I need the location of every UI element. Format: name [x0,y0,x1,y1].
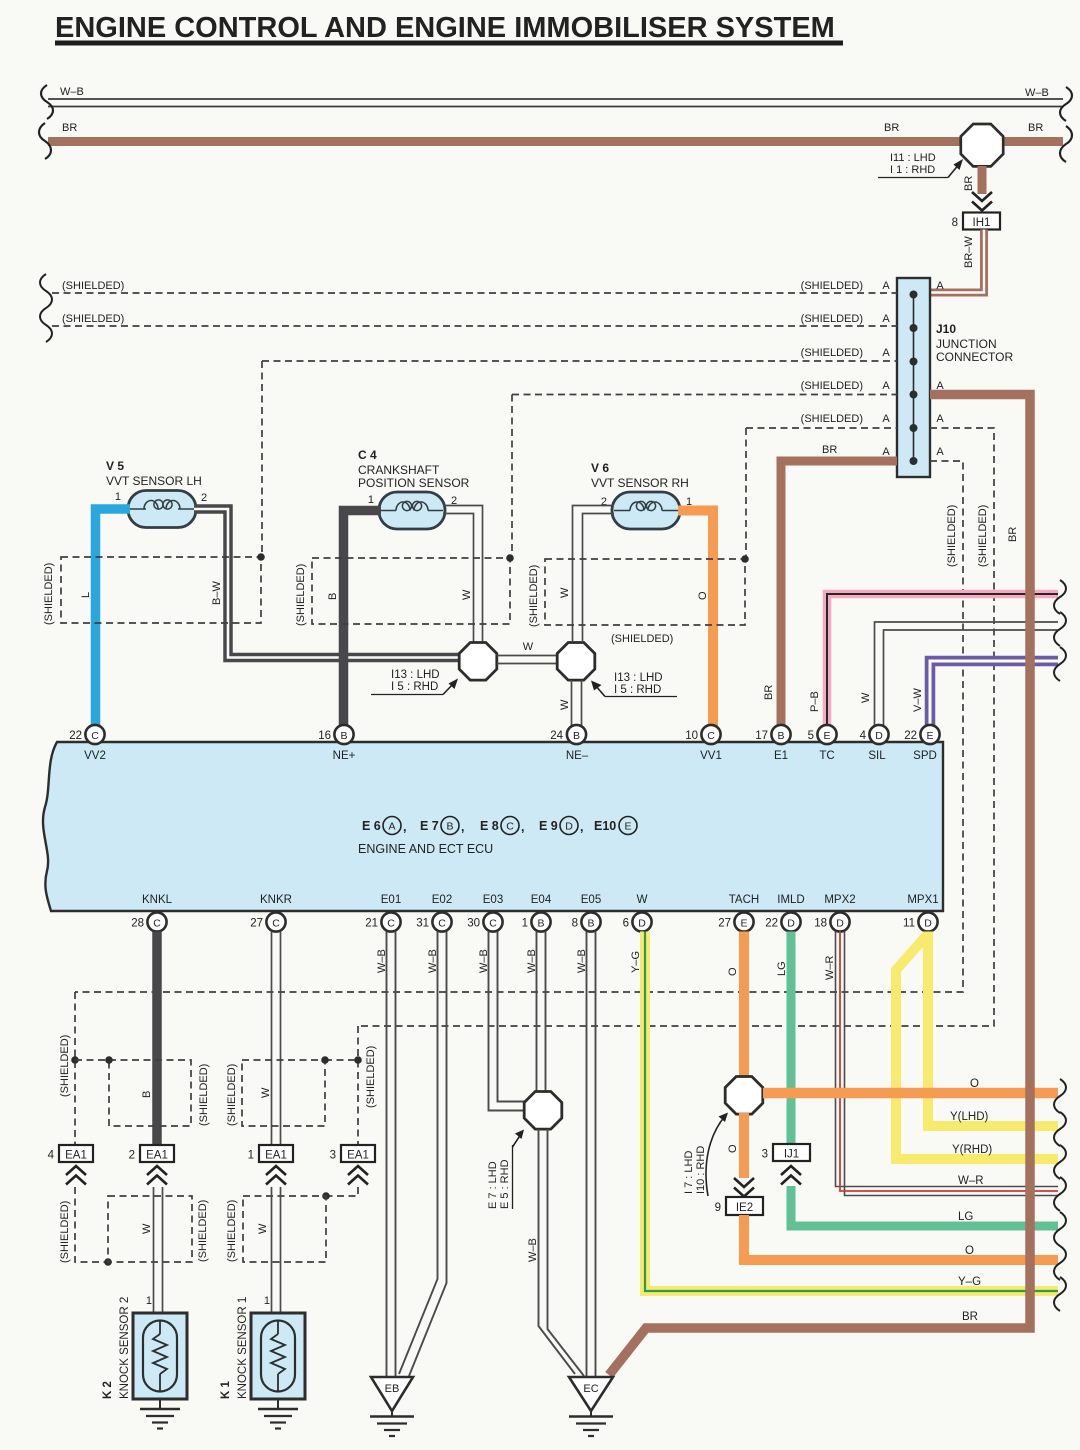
svg-text:C: C [91,730,99,742]
svg-text:IH1: IH1 [973,217,991,229]
junction connector J10 [897,278,1013,477]
wire O TACH to node I7 [727,932,744,1078]
svg-text:VV2: VV2 [84,750,106,762]
svg-text:W–R: W–R [824,956,836,981]
shield drain EA1-3 to K1 box [322,1187,358,1200]
svg-text:K 2: K 2 [102,1381,114,1399]
svg-text:D: D [836,918,844,930]
wire W-R MPX2 to right edge [824,932,1058,1196]
svg-text:A: A [388,821,395,833]
svg-text:W–B: W–B [526,949,538,973]
svg-text:E02: E02 [432,894,452,906]
svg-text:NE–: NE– [566,750,589,762]
svg-text:1: 1 [368,494,374,506]
continuation brace W-R [1054,1177,1066,1211]
shield drain dashed vertical to EA1-3 [325,1026,377,1145]
title ENGINE CONTROL AND ENGINE IMMOBILISER SYSTEM [55,12,843,46]
svg-text:IE2: IE2 [736,1202,753,1214]
svg-text:B: B [340,730,347,742]
svg-text:C: C [506,821,514,833]
svg-text:E: E [740,918,747,930]
wire W EA1-2 to K2 [146,1187,163,1315]
svg-text:(SHIELDED): (SHIELDED) [59,1035,71,1097]
svg-text:B: B [446,821,453,833]
shield box K1 W wire [226,1196,326,1262]
svg-text:16: 16 [318,730,331,742]
chevron arrow up to EA1-2 [147,1166,167,1185]
svg-text:CRANKSHAFT: CRANKSHAFT [358,463,440,477]
pin 1 B E04 [522,912,551,931]
pin 5 E TC [808,725,837,744]
chevron arrow down to IE2 [734,1178,754,1197]
wire W-B E03 to node E7 [478,932,526,1111]
svg-text:W: W [260,1087,272,1098]
pin 22 D IMLD [765,912,800,931]
svg-text:,: , [461,820,464,834]
svg-text:8: 8 [952,217,958,229]
svg-text:(SHIELDED): (SHIELDED) [197,1200,209,1262]
svg-text:E 7: E 7 [420,819,439,833]
wire W-B node E7 to EC [527,1129,584,1376]
wire W-B E04 to node E7 [526,932,546,1093]
node I13 octagon left [371,643,497,695]
svg-text:A: A [882,413,890,425]
svg-text:O: O [965,1245,974,1257]
shield box C4 [295,554,514,626]
shield drain dashed left vertical to EA1-4 [59,992,109,1145]
pin 18 D MPX2 [814,912,849,931]
svg-text:B–W: B–W [211,581,223,605]
svg-text:I 5 : RHD: I 5 : RHD [614,684,661,696]
svg-text:(SHIELDED): (SHIELDED) [295,564,307,626]
chevron arrow up to EA1-4 [66,1166,86,1185]
connector EA1 pin 3 [330,1145,375,1162]
svg-text:KNKR: KNKR [260,894,292,906]
svg-text:W–B: W–B [376,949,388,973]
pin 17 B E1 [755,725,790,744]
sensor C4 CRANKSHAFT POSITION SENSOR [358,448,470,529]
svg-text:9: 9 [715,1202,721,1214]
svg-text:L: L [80,592,92,598]
wire W C4 to node I13 [443,506,483,644]
wire V-W SPD to right edge [912,661,1058,726]
svg-text:EC: EC [583,1383,598,1395]
svg-text:Y(RHD): Y(RHD) [952,1144,992,1156]
svg-text:(SHIELDED): (SHIELDED) [62,280,124,292]
svg-text:IMLD: IMLD [777,894,804,906]
pin 6 D W [623,912,652,931]
svg-text:W: W [461,589,473,600]
continuation brace W SIL [1054,612,1066,646]
continuation brace row2 [40,308,52,342]
svg-text:ENGINE AND ECT ECU: ENGINE AND ECT ECU [358,842,493,856]
svg-text:W–B: W–B [527,1238,539,1262]
svg-text:E03: E03 [483,894,503,906]
svg-text:I10 : RHD: I10 : RHD [695,1146,707,1194]
continuation brace right BR [1060,126,1072,162]
svg-text:(SHIELDED): (SHIELDED) [801,313,863,325]
sensor V6 VVT SENSOR RH [591,461,692,529]
svg-text:27: 27 [718,918,731,930]
svg-text:KNKL: KNKL [142,894,173,906]
svg-text:J10: J10 [936,322,956,336]
svg-text:Y–G: Y–G [958,1276,981,1288]
wire W-B E05 to EC [576,932,596,1377]
pin 30 C E03 [467,912,502,931]
pin 22 C VV2 [69,725,104,744]
node E7:LHD / E5:RHD octagon [487,1092,562,1210]
svg-text:O: O [697,591,709,600]
shield drain EA1-4 to K2 box [59,1187,112,1266]
continuation brace Y-G [1054,1277,1066,1311]
svg-text:A: A [882,280,890,292]
svg-text:EA1: EA1 [146,1150,168,1162]
svg-text:NE+: NE+ [333,750,356,762]
shielded net row3 to V5 shield box [262,347,897,557]
wire W-B E01 to EB [376,932,396,1377]
svg-text:JUNCTION: JUNCTION [936,337,997,351]
svg-text:18: 18 [814,918,827,930]
svg-text:D: D [875,730,883,742]
svg-text:W–R: W–R [958,1175,984,1187]
svg-text:V 5: V 5 [106,459,124,473]
wire LG IMLD to IJ1 [776,932,791,1145]
svg-text:E 7 : LHD: E 7 : LHD [487,1161,499,1209]
shielded drain J10 row6 down right side [75,461,963,992]
wire L V5 to VV2 [80,509,130,726]
ECU ENGINE AND ECT ECU box [43,742,943,911]
wire P-B TC to right edge [809,594,1058,728]
svg-text:1: 1 [115,491,121,503]
svg-text:W: W [559,587,571,598]
wire B C4 to NE+ [327,511,381,727]
knock sensor K2 [102,1297,187,1399]
svg-text:SPD: SPD [913,750,937,762]
svg-text:11: 11 [903,918,915,930]
continuation brace LG [1054,1212,1066,1246]
pin 28 C KNKL [131,912,166,931]
svg-text:ENGINE CONTROL AND ENGINE IMMO: ENGINE CONTROL AND ENGINE IMMOBILISER SY… [55,12,835,44]
svg-text:1: 1 [248,1150,254,1162]
svg-text:W: W [257,1223,269,1234]
wire O node I7 to right edge [763,1078,1058,1093]
shielded net row2 to J10 pin A [52,313,897,326]
svg-text:24: 24 [550,730,563,742]
svg-text:22: 22 [765,918,778,930]
svg-text:VVT SENSOR RH: VVT SENSOR RH [591,476,689,490]
svg-text:D: D [787,918,795,930]
svg-text:O: O [727,1144,739,1153]
svg-text:A: A [936,413,944,425]
svg-text:W: W [523,641,534,653]
svg-text:E01: E01 [381,894,401,906]
svg-text:D: D [565,821,573,833]
connector IH1 pin 8 [952,213,1000,230]
connector EA1 pin 2 [129,1145,174,1162]
chevron arrow up to IJ1 [781,1166,801,1185]
svg-text:8: 8 [572,918,578,930]
svg-text:O: O [970,1078,979,1090]
continuation brace O lower [1054,1246,1066,1280]
svg-text:1: 1 [522,918,528,930]
wire Y(RHD) MPX1 to right edge [896,936,1058,1159]
svg-text:3: 3 [330,1150,336,1162]
wire W KNKR to EA1-1 [272,932,281,1146]
svg-text:4: 4 [48,1150,55,1162]
chevron arrow up to EA1-3 [348,1166,368,1185]
wire Y(LHD) MPX1 to right edge [928,932,1058,1127]
shield box KNKR W wire [226,1056,329,1126]
svg-text:3: 3 [762,1149,768,1161]
svg-text:(SHIELDED): (SHIELDED) [226,1200,238,1262]
wire BR octagon to IH1 [963,166,982,194]
wire O V6 to VV1 [678,511,713,727]
svg-text:BR: BR [962,1311,978,1323]
svg-text:E: E [624,821,631,833]
knock sensor K1 [220,1297,305,1399]
svg-text:EA1: EA1 [265,1150,287,1162]
pin 21 C E01 [365,912,400,931]
pin 22 E SPD [904,725,939,744]
connector IE2 pin 9 [715,1197,763,1215]
svg-text:Y(LHD): Y(LHD) [950,1111,989,1123]
svg-text:Y–G: Y–G [630,951,642,973]
svg-text:B: B [141,1091,153,1098]
continuation brace row1 [40,274,52,308]
svg-text:4: 4 [860,730,867,742]
svg-text:C: C [707,730,715,742]
svg-text:EB: EB [385,1383,400,1395]
svg-text:BR: BR [763,685,775,700]
ground point EB [370,1377,414,1436]
svg-text:W: W [860,692,872,703]
pin 11 D MPX1 [903,912,938,931]
connector EA1 pin 4 [48,1145,93,1162]
svg-text:BR: BR [1007,527,1019,542]
svg-text:IJ1: IJ1 [784,1149,799,1161]
svg-text:6: 6 [623,918,629,930]
svg-text:E1: E1 [774,750,788,762]
wire B KNKL to EA1-2 [152,932,162,1146]
svg-text:I 1 : RHD: I 1 : RHD [890,164,935,176]
svg-text:27: 27 [250,918,263,930]
wire LG IJ1 to right edge [791,1186,1058,1226]
svg-text:EA1: EA1 [65,1150,87,1162]
wire W-B E02 to EB [399,932,447,1377]
svg-text:1: 1 [146,1295,152,1307]
svg-text:(SHIELDED): (SHIELDED) [801,347,863,359]
svg-text:A: A [882,446,890,458]
shield box V6 [528,555,749,645]
shield box K2 W wire [108,1196,209,1262]
svg-text:BR: BR [1028,122,1043,134]
pin 31 C E02 [416,912,451,931]
svg-text:E: E [823,730,830,742]
svg-text:I13 : LHD: I13 : LHD [614,672,663,684]
svg-text:D: D [924,918,932,930]
svg-text:O: O [727,967,739,976]
wire W EA1-1 to K1 [264,1187,281,1315]
continuation brace left BR [39,123,51,159]
svg-text:TC: TC [819,750,834,762]
svg-text:POSITION SENSOR: POSITION SENSOR [358,476,470,490]
wire BR E1 to J10 row6 [763,444,897,728]
svg-text:A: A [882,313,890,325]
wire W node I13 right to NE- [559,680,582,726]
svg-text:A: A [936,446,944,458]
connector EA1 pin 1 [248,1145,293,1162]
svg-text:C: C [438,918,446,930]
ground below K1 [258,1399,298,1429]
svg-text:TACH: TACH [729,894,759,906]
svg-text:(SHIELDED): (SHIELDED) [43,563,55,625]
svg-text:E 9: E 9 [539,819,558,833]
svg-text:(SHIELDED): (SHIELDED) [59,1201,71,1263]
svg-text:B: B [537,918,544,930]
svg-text:31: 31 [416,918,429,930]
svg-text:30: 30 [467,918,480,930]
svg-text:KNOCK SENSOR 1: KNOCK SENSOR 1 [237,1297,249,1399]
svg-text:BR: BR [963,176,975,191]
svg-text:(SHIELDED): (SHIELDED) [226,1064,238,1126]
chevron arrow up to EA1-1 [266,1166,286,1185]
svg-text:E: E [926,730,933,742]
svg-text:E 5 : RHD: E 5 : RHD [499,1159,511,1209]
svg-text:(SHIELDED): (SHIELDED) [801,280,863,292]
svg-text:E 8: E 8 [480,819,499,833]
wire W V6 to node I13 right [559,506,614,643]
svg-text:,: , [403,820,406,834]
connector IJ1 pin 3 [762,1144,810,1161]
svg-text:V–W: V–W [912,688,924,712]
svg-text:C: C [153,918,161,930]
svg-text:B: B [327,593,339,600]
svg-text:V 6: V 6 [591,461,609,475]
svg-text:(SHIELDED): (SHIELDED) [946,505,958,567]
wire BR top [48,122,1063,142]
svg-text:A: A [936,280,944,292]
wire W between I13 nodes [497,641,557,664]
svg-text:5: 5 [808,730,814,742]
svg-text:I11 : LHD: I11 : LHD [890,152,936,164]
svg-text:22: 22 [69,730,82,742]
svg-text:BR: BR [884,122,899,134]
svg-text:CONNECTOR: CONNECTOR [936,350,1013,364]
svg-text:K 1: K 1 [220,1381,232,1400]
svg-text:(SHIELDED): (SHIELDED) [977,505,989,567]
wire BR J10 row4 to EC ground [609,395,1030,1376]
continuation brace left W-B [41,85,53,119]
continuation brace Y(RHD) [1054,1145,1066,1179]
wire W SIL to right edge [860,622,1058,726]
svg-text:E10: E10 [594,819,616,833]
svg-text:(SHIELDED): (SHIELDED) [528,565,540,627]
chevron arrow down to IH1 [972,192,992,211]
pin 27 E TACH [718,912,753,931]
shielded drain J10 row5 down right side [358,428,994,1026]
J10 row6 pin A labels [882,446,944,458]
svg-text:(SHIELDED): (SHIELDED) [365,1046,377,1108]
node I13 octagon right [557,643,677,697]
continuation brace V-W [1054,647,1066,681]
svg-text:I13 : LHD: I13 : LHD [391,669,440,681]
svg-text:W: W [141,1223,153,1234]
svg-text:2: 2 [201,492,207,504]
pin 24 B NE- [550,725,586,744]
pin 16 B NE+ [318,725,353,744]
svg-text:KNOCK SENSOR 2: KNOCK SENSOR 2 [119,1297,131,1399]
continuation brace Y(LHD) [1054,1112,1066,1146]
svg-text:10: 10 [685,730,698,742]
svg-text:17: 17 [755,730,768,742]
svg-text:P–B: P–B [809,691,821,712]
svg-text:,: , [580,820,583,834]
svg-text:E04: E04 [531,894,552,906]
shield box KNKL B wire [105,1056,210,1126]
svg-text:A: A [882,380,890,392]
shielded net row1 to J10 pin A [52,280,944,293]
continuation brace O [1054,1079,1066,1113]
svg-text:W: W [637,894,648,906]
node I11:LHD / I1:RHD octagon [878,124,1003,178]
svg-text:1: 1 [264,1295,270,1307]
svg-text:C: C [272,918,280,930]
wire O IE2 to right edge [744,1215,1058,1260]
wire W-B top [48,86,1063,107]
svg-text:B: B [573,730,580,742]
svg-text:(SHIELDED): (SHIELDED) [801,413,863,425]
svg-text:(SHIELDED): (SHIELDED) [62,313,124,325]
svg-text:W–B: W–B [427,949,439,973]
continuation brace right W-B [1060,87,1072,121]
shielded net row4 to C4 shield box [512,380,944,558]
svg-text:W: W [559,699,571,710]
svg-text:C: C [489,918,497,930]
ground below K2 [140,1399,180,1429]
svg-text:A: A [882,347,890,359]
svg-text:(SHIELDED): (SHIELDED) [801,380,863,392]
svg-text:D: D [638,918,646,930]
ground point EC [569,1377,613,1436]
svg-text:MPX2: MPX2 [824,894,855,906]
sensor V5 VVT SENSOR LH [106,459,207,528]
wire BR-W IH1 to J10 [931,230,984,293]
node I7:LHD / I10:RHD octagon [683,1077,763,1197]
svg-text:B: B [777,730,784,742]
pin 27 C KNKR [250,912,285,931]
svg-text:2: 2 [129,1150,135,1162]
svg-text:E05: E05 [581,894,601,906]
wire B-W V5 to node I13 [194,509,461,658]
svg-text:W–B: W–B [1025,87,1049,99]
svg-text:BR: BR [822,444,837,456]
svg-text:C: C [387,918,395,930]
svg-text:W–B: W–B [576,949,588,973]
continuation brace P-B [1054,580,1066,614]
wire Y-G W pin to right edge [630,932,1058,1292]
svg-text:VV1: VV1 [700,750,722,762]
svg-text:W–B: W–B [60,86,84,98]
pin 10 C VV1 [685,725,720,744]
svg-text:E 6: E 6 [362,819,381,833]
svg-text:LG: LG [776,961,788,976]
svg-text:W–B: W–B [478,949,490,973]
svg-text:VVT SENSOR LH: VVT SENSOR LH [106,474,202,488]
svg-text:BR: BR [62,122,77,134]
svg-text:SIL: SIL [868,750,886,762]
shield box V5 [43,553,265,625]
svg-text:I 5 : RHD: I 5 : RHD [391,681,438,693]
